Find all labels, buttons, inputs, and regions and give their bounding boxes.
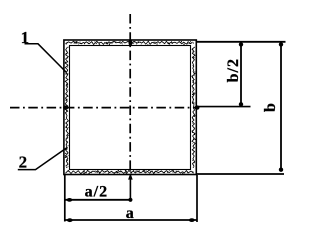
- svg-text:a: a: [126, 205, 135, 222]
- svg-text:b/2: b/2: [225, 58, 242, 82]
- svg-text:a/2: a/2: [85, 183, 108, 200]
- svg-text:b: b: [262, 102, 279, 112]
- svg-text:2: 2: [19, 152, 28, 171]
